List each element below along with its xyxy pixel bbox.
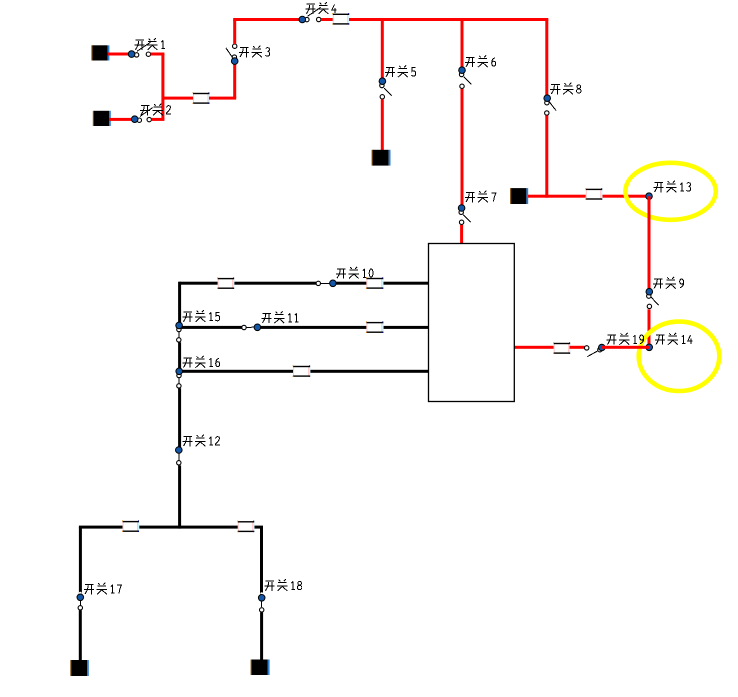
label 开关18	[265, 579, 302, 591]
label 开关7	[465, 191, 496, 203]
wire: 开关4 to fuse	[321, 18, 333, 21]
fuse (on feed line)	[585, 188, 602, 200]
wire: fuse to 开关19	[570, 346, 585, 349]
wire: bottom bus	[79, 526, 263, 529]
wire: row1 right segment	[336, 282, 429, 285]
wire: square to 开关1	[108, 53, 130, 56]
switch 开关7 (open)	[458, 205, 470, 225]
wire: feed line to 开关13	[528, 195, 651, 198]
switch 开关4 (open)	[299, 7, 321, 22]
label 开关4	[306, 2, 337, 14]
label 开关12	[183, 435, 220, 447]
switch 开关5 (open)	[379, 78, 392, 99]
wire: row1 left segment	[180, 282, 317, 285]
label 开关5	[385, 66, 416, 78]
wire: 开关5 to load	[381, 99, 384, 150]
label 开关10	[336, 267, 373, 279]
wire: 开关8 to feed line	[545, 116, 548, 198]
label 开关2	[140, 104, 171, 116]
wire: row2 right segment	[260, 326, 429, 329]
label 开关11	[262, 311, 299, 323]
load square (left of feed line)	[510, 188, 528, 204]
wire: row2 left segment	[180, 326, 243, 329]
switch 开关12 (closed)	[176, 447, 183, 465]
wire: square to 开关2	[109, 118, 133, 121]
wire: drop to 开关18	[260, 527, 263, 595]
switch 开关6 (open)	[459, 67, 472, 89]
fuse (row1 left)	[217, 277, 234, 289]
wire: riser to 开关3	[233, 61, 236, 98]
wire: left rail lower	[178, 465, 181, 528]
wire: top bus right segment	[349, 18, 548, 21]
label 开关8	[550, 83, 581, 95]
wire: drop to 开关8	[545, 20, 548, 96]
wire: 开关3 to top bus	[233, 20, 236, 45]
switch 开关11 (closed)	[242, 324, 261, 331]
wire: 开关17 to load	[79, 610, 82, 660]
load square (below 开关5)	[372, 150, 391, 166]
switch 开关3 (open)	[226, 44, 238, 64]
fuse (bottom left)	[122, 520, 139, 532]
wire: 开关18 to load	[260, 612, 263, 660]
wire: trunk to fuse	[163, 97, 194, 100]
switch 开关15 (closed)	[176, 322, 183, 342]
switch 开关19 (open)	[585, 344, 606, 356]
wire: top bus left segment	[233, 18, 300, 21]
wire: 开关7 to control box	[460, 225, 463, 247]
fuse (row2)	[366, 321, 384, 333]
label 开关14	[655, 333, 693, 345]
yellow highlight ellipse around 开关14	[639, 322, 720, 391]
label 开关9	[653, 277, 684, 289]
load square (left of 开关1)	[91, 45, 109, 60]
switch 开关13 (junction dot only)	[646, 193, 653, 200]
label 开关17	[84, 583, 121, 595]
fuse (row1 right)	[366, 277, 384, 289]
wire: 开关19 to 开关14	[602, 346, 649, 349]
wire: 开关2 to trunk	[151, 118, 164, 121]
switch 开关9 (open)	[646, 288, 659, 308]
switch 开关8 (open)	[544, 95, 556, 115]
switch 开关1 (open)	[128, 42, 150, 57]
switch 开关2 (open)	[131, 108, 152, 123]
wire: drop to 开关6	[461, 20, 464, 68]
wire: drop to 开关17	[79, 527, 82, 594]
fuse (bottom right)	[237, 521, 254, 533]
fuse (right of 开关4)	[332, 13, 349, 25]
load square (below 开关17)	[70, 660, 89, 676]
label 开关3	[239, 46, 270, 58]
wire: 开关13 down to 开关9	[648, 196, 651, 288]
fuse (between trunk and 开关3)	[193, 92, 210, 104]
label 开关13	[654, 181, 691, 193]
fuse (right of control box)	[553, 342, 570, 354]
label 开关1	[135, 38, 166, 50]
wire: left rail mid1	[178, 342, 181, 368]
fuse (row3)	[293, 365, 311, 377]
wire: drop to 开关5	[381, 20, 384, 79]
switch 开关10 (closed)	[316, 280, 336, 287]
label 开关6	[465, 56, 496, 68]
label 开关19	[607, 333, 644, 345]
wire: 开关6 to 开关7	[461, 89, 464, 205]
switch 开关16 (closed)	[176, 368, 183, 388]
yellow highlight ellipse around 开关13	[625, 163, 715, 220]
switch 开关17 (closed)	[77, 592, 84, 610]
wire: left rail mid2	[178, 388, 181, 447]
load square (below 开关18)	[251, 660, 270, 676]
label 开关16	[183, 356, 220, 368]
control box U1	[429, 244, 515, 402]
wire: fuse to 开关3 corner	[209, 97, 236, 100]
wire: 开关9 down to 开关14	[648, 309, 651, 349]
label 开关15	[183, 310, 220, 322]
wire: control box to fuse	[513, 346, 554, 349]
load square (left of 开关2)	[93, 111, 111, 126]
switch 开关18 (closed)	[258, 592, 265, 612]
wire: left rail upper	[178, 282, 181, 323]
wire: row3 segment	[180, 370, 429, 373]
wire: vertical trunk x163	[161, 54, 164, 120]
wire: 开关1 to corner	[151, 53, 165, 56]
switch 开关14 (junction dot only)	[646, 344, 653, 351]
